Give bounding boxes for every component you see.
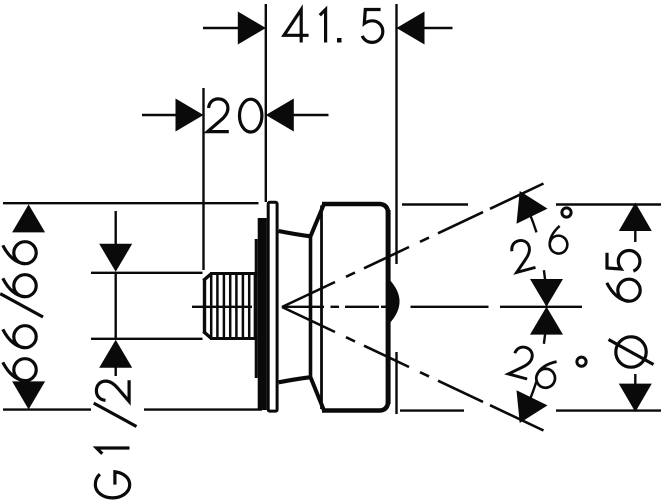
right arrowhead 20 <box>266 99 294 132</box>
right arrow line 20 <box>292 114 329 116</box>
top extension line right inner (y=204.5) <box>402 203 468 205</box>
jet face lens <box>389 280 399 323</box>
label 26deg lower <box>508 345 535 379</box>
right arrowhead 41.5 <box>397 12 425 45</box>
dimension line G1/2 upper <box>114 211 116 248</box>
lower diagonal jet centerline <box>282 307 544 431</box>
top extension line right outer <box>556 203 661 205</box>
upper arc arrowhead at diagonal <box>517 191 548 224</box>
extension line right of 41.5 (x=396.5) upper <box>395 4 397 264</box>
body right edge <box>386 210 391 404</box>
bottom extension line right outer <box>556 409 661 411</box>
thread bottom chamfer <box>203 332 211 339</box>
body top edge <box>322 204 388 214</box>
thread boss line <box>255 239 258 378</box>
dimension line G1/2 middle <box>114 273 116 339</box>
horizontal centerline <box>192 306 582 308</box>
wall flange bar <box>258 218 267 410</box>
left arrow line 20 <box>142 114 178 116</box>
label 66/66 (rotated) <box>0 242 43 381</box>
label G1/2 (rotated) <box>94 380 137 498</box>
angle arc upper near diagonal <box>522 196 537 233</box>
top extension line thread (y=272.8) <box>91 272 203 274</box>
extension line left of 41.5 (x=266) <box>265 4 267 202</box>
bottom extension line right inner (y=410.2) <box>400 409 464 411</box>
left arrowhead 20 <box>176 99 204 132</box>
bottom extension line (y=409.6) segment 2 <box>144 408 262 410</box>
cone bottom slope <box>311 377 325 410</box>
lower arc arrowhead at centerline <box>530 307 563 335</box>
neck bottom edge <box>279 377 311 382</box>
down arrowhead G1/2 <box>99 244 132 272</box>
up arrowhead G1/2 <box>99 340 132 368</box>
up arrowhead 66/66 <box>12 204 45 232</box>
right arrow line 41.5 <box>423 27 453 29</box>
neck top edge <box>279 231 311 236</box>
body seam line <box>320 206 323 410</box>
extension line left of 20 (x=203.5) <box>202 88 204 270</box>
cone base line <box>309 235 313 379</box>
upper arc arrowhead at centerline <box>530 279 563 307</box>
top extension line (y=203.2) <box>3 202 259 204</box>
dimension line G1/2 lower <box>114 366 116 376</box>
upper diagonal jet centerline <box>282 184 544 308</box>
left arrowhead 41.5 <box>238 12 266 45</box>
up arrowhead dia65 <box>619 203 652 232</box>
angle arc lower near diagonal <box>522 381 537 418</box>
bottom extension line (y=409.6) segment 1 <box>3 408 91 410</box>
extension line right of 41.5 (x=396.5) lower <box>395 352 397 414</box>
dimension line dia65 stub bottom <box>634 374 636 385</box>
down arrowhead 66/66 <box>12 381 45 409</box>
bottom extension line thread (y=338.8) <box>91 338 203 340</box>
thread hatch lines <box>211 275 255 337</box>
thread top edge <box>210 272 258 275</box>
angle arc upper near centerline <box>544 270 547 305</box>
label 20 <box>208 99 262 132</box>
lower arc arrowhead at diagonal <box>517 390 548 423</box>
thread bottom edge <box>210 337 258 340</box>
escutcheon plate <box>268 202 277 411</box>
thread top chamfer <box>203 274 211 281</box>
body bottom edge <box>322 401 388 411</box>
thread left face <box>203 279 206 334</box>
label dia symbol <box>616 337 646 367</box>
label 41.5 <box>284 10 383 43</box>
down arrowhead dia65 <box>619 384 652 412</box>
angle arc lower near centerline <box>544 309 547 344</box>
label 65 (rotated) <box>607 279 640 301</box>
cone top slope <box>311 204 325 236</box>
dimension line dia65 stub top <box>634 229 636 242</box>
left arrow line 41.5 <box>203 27 240 29</box>
label 26deg upper <box>509 238 536 272</box>
